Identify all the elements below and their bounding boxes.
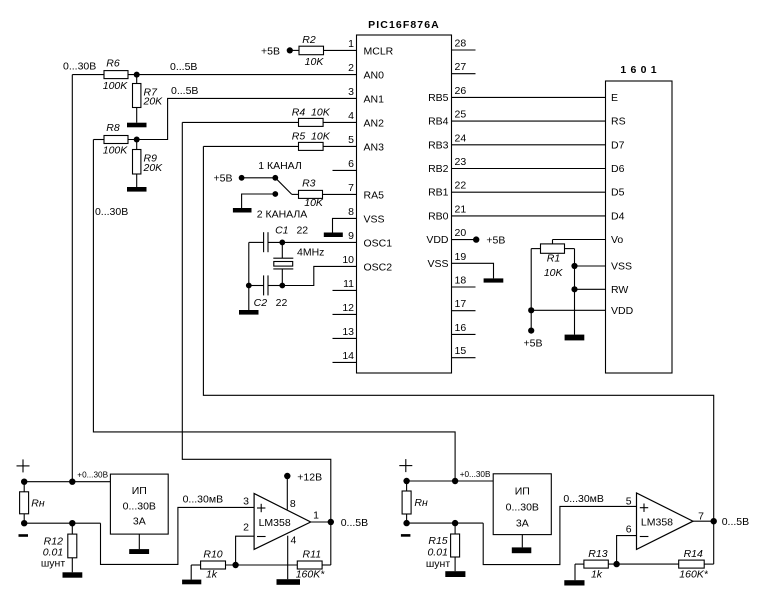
wire R8 input (93, 139, 104, 141)
svg-text:17: 17 (455, 298, 467, 310)
svg-text:R13: R13 (588, 548, 607, 560)
svg-text:R6: R6 (106, 58, 120, 70)
svg-text:3: 3 (348, 86, 354, 98)
resistor R11 (297, 561, 322, 569)
svg-text:Rн: Rн (31, 497, 45, 509)
svg-text:0.01: 0.01 (427, 546, 447, 558)
wire op-amp2 inverting input (617, 536, 637, 565)
svg-text:RB0: RB0 (428, 210, 449, 222)
resistor R3 (299, 190, 323, 198)
svg-text:0...30В: 0...30В (506, 501, 539, 513)
svg-text:160K*: 160K* (296, 569, 326, 581)
ground below R1 rail (565, 335, 585, 341)
ground below switch contact 2 (233, 208, 252, 213)
wire Vo to R1 wiper (553, 239, 606, 241)
node minus terminal ch2 (403, 520, 409, 526)
wire op-amp1 pin4 to ground (287, 536, 289, 580)
svg-text:4: 4 (348, 110, 354, 122)
svg-text:RB2: RB2 (428, 163, 449, 175)
wire RB4 to RS (452, 120, 606, 122)
wire RB2 to D6 (452, 168, 606, 170)
node feedback junction ch1 (232, 562, 238, 568)
ground at R13 (564, 580, 584, 585)
wire R11 to output (322, 564, 331, 566)
node plus terminal ch1 (21, 479, 27, 485)
svg-text:1k: 1k (206, 569, 218, 581)
wire R4 to AN2 pin (323, 121, 356, 123)
svg-text:10K: 10K (304, 197, 324, 209)
svg-text:8: 8 (290, 498, 296, 510)
resistor R12 shunt (71, 523, 73, 534)
ground below R9 (136, 174, 138, 187)
svg-text:2: 2 (348, 62, 354, 74)
crystal ZQ1 4MHz (281, 242, 283, 258)
node RW junction (571, 286, 577, 292)
svg-text:3А: 3А (516, 517, 529, 529)
svg-text:C1: C1 (275, 224, 288, 236)
svg-text:MCLR: MCLR (364, 45, 394, 57)
wire shunt sense to op-amp1 plus (101, 507, 255, 564)
wire LCD VSS (575, 265, 606, 267)
node switch contact 2 (272, 191, 278, 197)
node output ch2 (711, 518, 717, 524)
capacitor C2 (263, 275, 265, 295)
wire R2 to MCLR (324, 49, 357, 51)
svg-text:R15: R15 (428, 535, 447, 547)
resistor R10 (191, 564, 200, 566)
wire C1 left to corner (249, 241, 264, 243)
resistor R2 (299, 46, 324, 55)
node C-left junction (246, 283, 252, 289)
svg-text:VSS: VSS (364, 213, 385, 225)
terminal plus ch2 (399, 465, 412, 467)
svg-text:5: 5 (626, 495, 632, 507)
svg-text:VDD: VDD (611, 305, 634, 317)
svg-text:ИП: ИП (515, 485, 530, 497)
wire AN2 to R4 (182, 121, 298, 123)
svg-text:R14: R14 (684, 548, 703, 560)
svg-text:R2: R2 (302, 34, 316, 46)
svg-text:4MHz: 4MHz (297, 246, 324, 258)
node R1 left / VDD junction (528, 307, 534, 313)
svg-text:RB3: RB3 (428, 139, 449, 151)
resistor R9 (136, 140, 138, 150)
LCD module 1601 body (606, 81, 673, 373)
svg-text:RS: RS (611, 116, 626, 128)
svg-text:0...30В: 0...30В (123, 500, 156, 512)
svg-text:R1: R1 (547, 253, 560, 265)
ground below IP1 (138, 534, 140, 549)
svg-text:R3: R3 (302, 178, 316, 190)
ground at VSS pin8 (324, 233, 343, 238)
wire OSC1 to C1 (268, 241, 357, 243)
svg-text:14: 14 (342, 350, 354, 362)
resistor R7 (136, 75, 138, 84)
svg-text:R11: R11 (303, 549, 321, 561)
op-amp DA1.2 LM358 (637, 493, 694, 549)
svg-text:10K: 10K (311, 106, 331, 118)
svg-text:5: 5 (348, 134, 354, 146)
node crystal top junction (279, 240, 285, 246)
svg-text:0...30мВ: 0...30мВ (183, 494, 224, 506)
wire crystal junction to OSC2 (282, 266, 356, 285)
svg-text:11: 11 (343, 278, 354, 290)
svg-text:1: 1 (313, 510, 319, 522)
switch SA1 blade (275, 178, 292, 195)
svg-text:7: 7 (348, 182, 354, 194)
svg-text:160K*: 160K* (679, 569, 709, 581)
node R12 tap ch1 (69, 520, 75, 526)
svg-text:6: 6 (348, 158, 354, 170)
svg-text:3: 3 (243, 495, 249, 507)
svg-text:R5: R5 (292, 130, 306, 142)
node +5V terminal R2 (287, 47, 293, 53)
wire VSS pin19 to ground (452, 263, 494, 278)
power supply IP1 box (110, 474, 168, 534)
ground at R10 (182, 580, 201, 585)
node +12V terminal (284, 473, 290, 479)
svg-text:RB1: RB1 (428, 187, 449, 199)
resistor R8 (104, 136, 128, 144)
svg-text:24: 24 (455, 132, 467, 144)
op-amp DA1.1 LM358 (254, 494, 311, 550)
svg-text:1k: 1k (591, 569, 603, 581)
wire C1 left down to C2 left (248, 242, 250, 285)
svg-text:19: 19 (455, 251, 467, 263)
svg-text:R10: R10 (203, 549, 222, 561)
wire R8 junction to AN1 (128, 98, 357, 139)
node feedback junction ch2 (613, 561, 619, 567)
svg-text:Vo: Vo (611, 234, 623, 246)
terminal minus ch1 (19, 534, 29, 537)
svg-text:0...5В: 0...5В (170, 61, 197, 73)
wire plus row ch2 (407, 480, 494, 482)
svg-text:0...5В: 0...5В (722, 516, 749, 528)
svg-text:100K: 100K (103, 145, 129, 157)
svg-text:AN1: AN1 (364, 93, 385, 105)
svg-text:0...30В: 0...30В (95, 206, 128, 218)
wire R1 right to ground rail (565, 248, 575, 250)
svg-text:+5В: +5В (486, 234, 505, 246)
node VSS junction (571, 263, 577, 269)
svg-text:Rн: Rн (414, 497, 428, 509)
svg-text:8: 8 (348, 206, 354, 218)
resistor R13 (575, 563, 584, 565)
wire RB5 to E (452, 96, 606, 98)
svg-text:+5В: +5В (524, 338, 543, 350)
svg-text:27: 27 (455, 61, 467, 73)
svg-text:шунт: шунт (426, 558, 450, 570)
svg-text:VSS: VSS (427, 258, 448, 270)
svg-text:25: 25 (455, 109, 467, 121)
svg-text:26: 26 (455, 85, 467, 97)
svg-text:0...30мВ: 0...30мВ (563, 493, 604, 505)
resistor R6 (104, 71, 128, 79)
svg-text:9: 9 (348, 230, 354, 242)
node feed junction ch2 (452, 478, 458, 484)
svg-text:AN2: AN2 (364, 117, 385, 129)
svg-text:16: 16 (455, 322, 467, 334)
wire blade to R3 (292, 193, 299, 195)
svg-text:4: 4 (291, 535, 297, 547)
wire op-amp1 pin8 to +12V (286, 476, 288, 510)
resistor R14 (679, 560, 705, 568)
node R6/R7 junction (134, 72, 140, 78)
svg-text:10K: 10K (544, 267, 564, 279)
ground below R15 (454, 557, 456, 571)
power supply IP2 box (493, 474, 551, 535)
resistor Rn ch1 (23, 482, 25, 492)
svg-text:+5В: +5В (261, 45, 280, 57)
svg-text:RB5: RB5 (428, 92, 449, 104)
wire RB3 to D7 (452, 144, 606, 146)
ground below IP2 (521, 535, 523, 548)
svg-text:23: 23 (455, 156, 467, 168)
node feed junction ch1 (69, 479, 75, 485)
svg-text:18: 18 (455, 275, 467, 287)
terminal plus ch1 (17, 465, 30, 467)
svg-text:+5В: +5В (214, 173, 233, 185)
svg-text:7: 7 (698, 510, 704, 522)
svg-text:E: E (611, 92, 618, 104)
svg-text:+0...30В: +0...30В (460, 470, 491, 479)
svg-text:0...5В: 0...5В (341, 517, 368, 529)
wire minus row ch1 (24, 522, 100, 524)
node +5V terminal below (528, 328, 534, 334)
svg-text:0...5В: 0...5В (171, 85, 198, 97)
node output ch1 (328, 519, 334, 525)
svg-text:D7: D7 (611, 139, 625, 151)
ground below R12 (71, 558, 73, 573)
ground below oscillator (248, 286, 250, 311)
svg-text:VSS: VSS (611, 261, 632, 273)
wire AN2 net to out1 (182, 122, 330, 565)
svg-text:21: 21 (455, 203, 467, 215)
ground below R7 (136, 108, 138, 123)
wire RB1 to D5 (452, 191, 606, 193)
svg-text:+0...30В: +0...30В (77, 471, 108, 480)
wire +5V to R2 (290, 49, 299, 51)
svg-text:AN3: AN3 (364, 141, 385, 153)
resistor R4 (299, 118, 324, 126)
wire LCD RW (575, 288, 606, 290)
terminal minus ch2 (401, 534, 411, 537)
wire RB0 to D4 (452, 215, 606, 217)
wire op-amp1 inverting input (236, 536, 255, 565)
svg-text:LM358: LM358 (641, 516, 673, 528)
resistor Rn ch2 (406, 481, 408, 491)
wire C2 row (249, 285, 264, 287)
node +5V at pin20 (473, 236, 479, 242)
wire LCD VDD (531, 309, 605, 311)
svg-text:10K: 10K (305, 56, 325, 68)
wire contact 2 to ground (242, 194, 276, 208)
svg-text:LM358: LM358 (259, 517, 291, 529)
wire AN3 to R5 (203, 145, 298, 147)
svg-text:RB4: RB4 (428, 116, 449, 128)
svg-text:C2: C2 (254, 297, 268, 309)
svg-text:1601: 1601 (620, 64, 661, 76)
svg-text:20K: 20K (143, 162, 164, 174)
wire minus row ch2 (407, 522, 484, 524)
node crystal bottom junction (279, 283, 285, 289)
wire op-amp1 output (311, 521, 331, 523)
capacitor C1 (263, 232, 265, 252)
wire VSS pin8 to ground (333, 218, 357, 232)
svg-text:2: 2 (243, 522, 249, 534)
wire shunt sense to op-amp2 plus (483, 506, 636, 564)
svg-text:PIC16F876A: PIC16F876A (368, 19, 440, 31)
node switch contact 1 (272, 175, 278, 181)
potentiometer R1 body (541, 244, 565, 253)
MCU U1 PIC16F876A body (357, 35, 452, 373)
svg-text:OSC2: OSC2 (364, 261, 393, 273)
svg-text:R4: R4 (292, 106, 306, 118)
svg-text:RA5: RA5 (364, 189, 385, 201)
svg-text:AN0: AN0 (364, 69, 385, 81)
svg-text:D5: D5 (611, 187, 625, 199)
svg-text:1: 1 (348, 38, 354, 50)
svg-text:+12В: +12В (297, 471, 322, 483)
svg-text:шунт: шунт (41, 557, 65, 569)
svg-text:22: 22 (276, 297, 288, 309)
svg-text:6: 6 (626, 524, 632, 536)
wire R6 input (72, 74, 104, 76)
wire R14 to output (704, 563, 714, 565)
resistor R15 shunt (454, 523, 456, 534)
svg-text:VDD: VDD (426, 234, 449, 246)
svg-text:22: 22 (296, 224, 308, 236)
svg-text:2 КАНАЛА: 2 КАНАЛА (257, 208, 308, 220)
wire VDD pin20 to +5V node (452, 239, 477, 241)
wire R1 left to +5V rail (531, 248, 540, 250)
svg-text:13: 13 (342, 326, 354, 338)
svg-text:20: 20 (455, 227, 467, 239)
wire R3 to RA5 (323, 193, 357, 195)
wire +5V to contact 1 (242, 177, 276, 179)
svg-text:28: 28 (455, 38, 467, 50)
wire R5 to AN3 pin (323, 145, 356, 147)
potentiometer R1 wiper (552, 240, 554, 244)
node minus terminal ch1 (21, 520, 27, 526)
svg-text:OSC1: OSC1 (364, 237, 393, 249)
svg-text:10K: 10K (311, 130, 331, 142)
svg-text:RW: RW (611, 284, 628, 296)
svg-text:ИП: ИП (132, 485, 147, 497)
svg-text:R8: R8 (106, 122, 120, 134)
wire feed 0...30V ch1 vertical (71, 75, 73, 482)
svg-text:3А: 3А (133, 515, 146, 527)
node plus terminal ch2 (403, 478, 409, 484)
svg-text:D4: D4 (611, 210, 625, 222)
wire R13 to R14 (608, 563, 678, 565)
svg-text:10: 10 (342, 254, 354, 266)
svg-text:12: 12 (342, 302, 354, 314)
node R8/R9 junction (134, 137, 140, 143)
svg-text:100K: 100K (103, 80, 129, 92)
svg-text:22: 22 (455, 180, 467, 192)
svg-text:15: 15 (455, 345, 467, 357)
wire AN3 net to out2 (203, 146, 713, 521)
wire plus row ch1 (24, 481, 110, 483)
node +5V switch terminal (239, 175, 245, 181)
wire op-amp2 output (693, 520, 714, 522)
wire feed 0...30V ch2 (93, 140, 455, 482)
wire R6 to AN0 (128, 74, 357, 76)
ground at op-amp1 pin4 (277, 579, 301, 585)
node R15 tap ch2 (452, 520, 458, 526)
wire R10 to R11 (226, 564, 298, 566)
ground at VSS pin19 (484, 278, 504, 282)
resistor R5 (299, 142, 324, 150)
svg-text:1 КАНАЛ: 1 КАНАЛ (258, 160, 302, 172)
svg-text:D6: D6 (611, 163, 625, 175)
svg-text:0...30В: 0...30В (63, 61, 96, 73)
svg-text:20K: 20K (143, 96, 164, 108)
